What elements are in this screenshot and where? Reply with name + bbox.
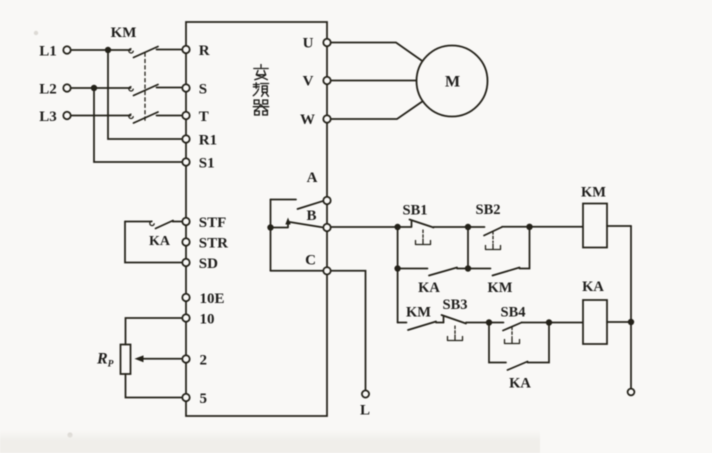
label 变频器 (vertical CJK drawn as strokes) [253, 65, 268, 115]
node 3 [526, 224, 532, 230]
svg-text:V: V [303, 74, 314, 90]
svg-text:KM: KM [111, 25, 137, 41]
contact KM (NO, row3) [408, 322, 436, 331]
svg-text:L: L [360, 403, 370, 419]
terminal L2 [63, 84, 70, 91]
svg-text:S: S [199, 81, 207, 97]
terminal B [323, 224, 330, 231]
row3 from left rail [398, 322, 407, 324]
svg-text:U: U [303, 36, 314, 52]
terminal S1 [182, 158, 189, 165]
svg-text:L1: L1 [39, 43, 57, 59]
pushbutton SB4 (NO) [489, 322, 504, 324]
motor M [417, 46, 488, 117]
inverter box 变频器 [186, 22, 327, 416]
node row2 mid [465, 265, 471, 271]
KM main contact 2 [129, 87, 133, 91]
node 4 [486, 319, 492, 325]
wire U to motor [331, 43, 423, 62]
contact KA (NO, parallels SB4) [489, 323, 506, 363]
svg-text:R: R [199, 43, 210, 59]
terminal S [182, 84, 189, 91]
pushbutton SB3 (NC) [443, 317, 445, 323]
terminal C [323, 267, 330, 274]
svg-text:2: 2 [200, 352, 208, 368]
terminal W [323, 115, 330, 122]
node right rail [628, 319, 634, 325]
relay contact to B with arrow [271, 223, 289, 228]
node on L1 line [105, 47, 111, 53]
terminal SD [182, 259, 189, 266]
svg-text:KM: KM [581, 185, 606, 201]
terminal U [323, 39, 330, 46]
terminal 2 [182, 355, 189, 362]
svg-text:KM: KM [488, 280, 513, 296]
contact KA (NO, parallels SB1) [398, 268, 428, 270]
svg-text:KA: KA [509, 376, 531, 392]
pushbutton SB2 (NO) [468, 226, 485, 228]
svg-text:A: A [307, 170, 318, 186]
terminal L [362, 390, 369, 397]
svg-text:KM: KM [406, 305, 431, 321]
right rail [630, 226, 632, 389]
rail end terminal [628, 389, 635, 396]
terminal R [182, 46, 189, 53]
svg-text:10E: 10E [200, 291, 225, 307]
terminal 10E [182, 294, 189, 301]
terminal A [323, 197, 330, 204]
potentiometer wiper arrow from terminal 2 [141, 358, 182, 360]
KM contacts gang link (dashed) [144, 53, 146, 121]
node 2 [465, 224, 471, 230]
svg-text:M: M [445, 74, 460, 91]
wire C to terminal L [331, 271, 366, 390]
svg-text:STR: STR [199, 235, 228, 251]
node on L2 line [91, 85, 97, 91]
svg-text:10: 10 [200, 311, 215, 327]
terminal STF [182, 218, 189, 225]
svg-text:5: 5 [200, 391, 208, 407]
bracket vertical [270, 200, 272, 271]
terminal 10 [182, 314, 189, 321]
node on bracket at B level [267, 224, 273, 230]
internal relay bracket A-B-C [271, 199, 297, 201]
svg-text:L2: L2 [39, 81, 57, 97]
svg-text:KA: KA [418, 280, 440, 296]
KM main contact 3 [129, 114, 133, 118]
svg-text:C: C [305, 253, 316, 269]
contact KM (NO, parallels SB2) [468, 268, 491, 270]
terminal L1 [63, 46, 70, 53]
svg-text:KA: KA [149, 234, 171, 249]
wire V to motor [331, 80, 417, 82]
node 1 [394, 224, 400, 230]
svg-text:STF: STF [199, 215, 227, 231]
vertical node2 down [467, 227, 469, 269]
wire node3 to KM coil [530, 226, 584, 228]
relay blade B [290, 222, 324, 228]
svg-text:SB1: SB1 [403, 203, 428, 219]
terminal T [182, 112, 189, 119]
svg-text:T: T [199, 109, 209, 125]
svg-text:R1: R1 [199, 132, 217, 148]
KA contact bracket STF-SD [125, 221, 152, 223]
terminal R1 [182, 135, 189, 142]
pushbutton SB1 (NC) [398, 221, 412, 228]
wire R1 to L1 node [108, 54, 182, 140]
terminal L3 [63, 112, 70, 119]
svg-text:S1: S1 [199, 155, 215, 171]
wire L3 to KM contact [71, 115, 131, 117]
KM main contact 1 [129, 49, 133, 53]
scan speckle [34, 31, 38, 35]
wire KA coil to right rail [607, 321, 631, 323]
terminal 5 [182, 394, 189, 401]
relay contact blade to A (open) [298, 201, 325, 209]
terminal V [323, 77, 330, 84]
wire W to motor [331, 101, 423, 119]
svg-text:L3: L3 [39, 109, 57, 125]
svg-text:SB4: SB4 [501, 305, 526, 321]
potentiometer Rp body [121, 345, 131, 375]
bracket bottom to C [271, 270, 324, 272]
node 5 [546, 319, 552, 325]
contactor coil KM [583, 204, 607, 248]
svg-text:SB2: SB2 [476, 202, 501, 218]
left rail node1 down [397, 227, 399, 323]
wire KM coil to right rail [607, 225, 631, 227]
relay coil KA [583, 300, 607, 344]
wire L1 to KM contact [71, 49, 131, 51]
svg-text:SB3: SB3 [443, 297, 468, 313]
wire B to control node 1 [331, 226, 395, 228]
terminal STR [182, 238, 189, 245]
potentiometer Rp wires [126, 318, 183, 345]
wire S1 to L2 node [94, 92, 182, 163]
svg-text:B: B [306, 208, 316, 224]
node row2 left [394, 265, 400, 271]
svg-text:SD: SD [199, 256, 218, 272]
svg-text:W: W [300, 112, 315, 128]
svg-text:KA: KA [582, 279, 604, 295]
wire L2 to KM contact [71, 87, 131, 89]
wire node5 to KA coil [549, 322, 583, 324]
